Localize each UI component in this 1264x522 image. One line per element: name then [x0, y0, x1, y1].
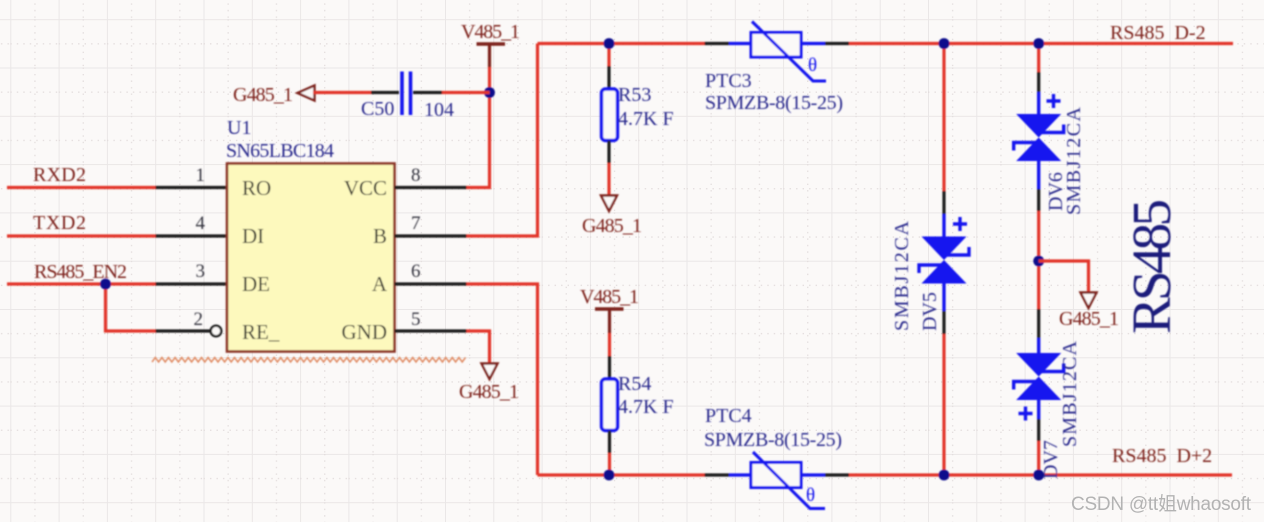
svg-text:CSDN @tt姐whaosoft: CSDN @tt姐whaosoft — [1071, 493, 1252, 515]
DV5 plus mark — [953, 217, 967, 231]
diode DV5 anode lead blue — [942, 214, 945, 237]
svg-text:B: B — [373, 224, 387, 248]
wire pin3 stub — [156, 282, 228, 285]
svg-text:4.7K F: 4.7K F — [618, 396, 674, 418]
power symbol V485_1 bar at R54 — [595, 307, 624, 311]
junction DV7 bottom rail — [1033, 470, 1044, 481]
svg-text:RS485_EN2: RS485_EN2 — [34, 261, 127, 283]
svg-text:VCC: VCC — [344, 176, 387, 200]
svg-text:6: 6 — [411, 261, 421, 282]
svg-text:R53: R53 — [618, 84, 651, 106]
wire DV5 bottom — [942, 334, 945, 475]
PTC3 right lead black — [825, 42, 849, 45]
svg-text:G485_1: G485_1 — [459, 381, 519, 403]
wire bottom rail left segment — [538, 473, 705, 476]
thermistor PTC3 — [729, 22, 826, 82]
capacitor C50 plates — [402, 72, 411, 116]
wire pin5 GND drop — [467, 331, 490, 364]
wire DV5 top — [942, 44, 945, 192]
svg-text:SPMZB-8(15-25): SPMZB-8(15-25) — [705, 92, 843, 114]
wire top rail left segment — [538, 42, 705, 45]
wire R53 top — [607, 44, 610, 67]
PTC4 left lead black — [705, 473, 730, 476]
svg-text:PTC3: PTC3 — [705, 70, 752, 92]
diode DV6 bottom lead black — [1037, 189, 1040, 211]
wire C50 right — [442, 91, 490, 94]
wire pin4 stub — [156, 234, 228, 237]
svg-text:PTC4: PTC4 — [705, 405, 752, 427]
diode DV6 bottom lead blue — [1037, 161, 1040, 190]
junction C50 tap — [484, 87, 495, 98]
wire pin2 stub — [156, 329, 211, 332]
resistor R54 body — [602, 379, 618, 431]
svg-text:V485_1: V485_1 — [580, 286, 639, 308]
wire pin1 stub — [156, 186, 228, 189]
svg-text:GND: GND — [342, 320, 388, 344]
svg-text:1: 1 — [196, 165, 206, 186]
svg-text:U1: U1 — [227, 117, 251, 139]
svg-text:θ: θ — [808, 55, 817, 76]
wire DV6 to DV7 — [1037, 211, 1040, 309]
resistor R53 body — [602, 89, 618, 141]
svg-text:8: 8 — [411, 165, 421, 186]
wire C50 left — [313, 91, 371, 94]
wire pin5 stub — [395, 329, 467, 332]
pin2 inversion bubble — [211, 326, 222, 337]
DV6 plus mark — [1047, 94, 1061, 108]
svg-text:SN65LBC184: SN65LBC184 — [226, 140, 334, 162]
diode DV7 TVS body — [1016, 353, 1061, 377]
svg-text:5: 5 — [411, 309, 421, 330]
wire pin7 stub — [395, 234, 467, 237]
svg-text:C50: C50 — [361, 98, 394, 120]
wire pin7 B to top rail — [467, 44, 538, 237]
power symbol V485_1 stem at R54 — [608, 309, 611, 333]
wire DV7 bottom — [1037, 441, 1040, 475]
svg-text:104: 104 — [424, 99, 454, 121]
capacitor C50 left lead — [371, 91, 399, 94]
svg-text:RO: RO — [242, 176, 271, 200]
ground arrow G485_1 at pin5 — [482, 364, 498, 380]
svg-text:DV5: DV5 — [919, 292, 941, 331]
svg-text:RS485 D+2: RS485 D+2 — [1112, 445, 1212, 467]
junction R53 top rail — [604, 38, 615, 49]
capacitor C50 right lead — [413, 91, 442, 94]
svg-text:4: 4 — [196, 213, 206, 234]
junction EN2 branch — [100, 279, 111, 290]
wire top rail right segment — [849, 42, 1233, 45]
svg-text:G485_1: G485_1 — [582, 215, 642, 237]
resistor R54 top lead — [608, 356, 611, 379]
DV7 plus mark — [1019, 407, 1033, 421]
wire RXD2 net — [7, 186, 156, 189]
svg-text:SMBJ12CA: SMBJ12CA — [1059, 340, 1081, 447]
diode DV7 bottom lead black — [1037, 419, 1040, 441]
diode DV6 top lead black — [1037, 72, 1040, 92]
wire bottom rail right segment — [849, 473, 1232, 476]
svg-text:G485_1: G485_1 — [1059, 308, 1119, 330]
junction R54 bottom rail — [604, 470, 615, 481]
resistor R53 bottom lead — [607, 141, 610, 164]
svg-text:RS485 D-2: RS485 D-2 — [1110, 22, 1206, 44]
resistor R54 bottom lead — [608, 431, 611, 454]
diode DV5 TVS body — [922, 237, 967, 261]
PTC3 left lead black — [705, 42, 730, 45]
diode DV5 bottom lead black — [942, 311, 945, 334]
svg-text:RXD2: RXD2 — [33, 164, 86, 186]
power symbol V485_1 bar — [477, 42, 506, 46]
wire R53 bottom — [607, 163, 610, 196]
junction DV6 DV7 G485 — [1033, 256, 1044, 267]
svg-text:3: 3 — [196, 261, 206, 282]
svg-text:7: 7 — [411, 213, 421, 234]
wire G485 branch — [1039, 261, 1089, 293]
diode DV7 bottom lead blue — [1037, 400, 1040, 420]
PTC4 right lead black — [825, 473, 849, 476]
wire pin6 A to bottom rail — [467, 284, 538, 475]
wire R54 bottom — [608, 453, 611, 475]
svg-text:4.7K F: 4.7K F — [618, 108, 674, 130]
svg-text:RE_: RE_ — [242, 320, 280, 344]
junction DV6 top rail — [1033, 38, 1044, 49]
diode DV5 bottom lead blue — [942, 283, 945, 311]
diode DV7 top lead black — [1037, 309, 1040, 338]
svg-text:V485_1: V485_1 — [461, 21, 520, 43]
op-amp U1 SN65LBC184 body — [227, 164, 395, 352]
wire pin6 stub — [395, 282, 467, 285]
resistor R53 top lead — [607, 66, 610, 89]
svg-text:DE: DE — [242, 272, 270, 296]
svg-text:RS485: RS485 — [1121, 199, 1182, 334]
diode DV7 top lead blue — [1037, 338, 1040, 354]
wire RS485_EN2 net — [7, 282, 156, 285]
diode DV6 TVS body — [1016, 114, 1061, 138]
svg-text:DI: DI — [242, 224, 264, 248]
svg-text:SPMZB-8(15-25): SPMZB-8(15-25) — [704, 429, 842, 451]
ground arrow G485_1 at R53 — [601, 196, 617, 212]
wire pin8 stub — [395, 186, 467, 189]
power symbol V485_1 stem — [488, 45, 491, 67]
wire R54 top — [608, 333, 611, 356]
wire EN2 branch to RE_ — [106, 284, 156, 331]
wire pin8 to V485_1 — [467, 67, 490, 188]
ground arrow G485_1 at DV junction — [1081, 293, 1097, 309]
wire DV6 top — [1037, 44, 1040, 73]
diode DV5 top lead — [942, 191, 945, 214]
error squiggle under U1 — [152, 358, 466, 363]
svg-text:TXD2: TXD2 — [33, 212, 86, 234]
svg-text:R54: R54 — [618, 373, 651, 395]
svg-text:2: 2 — [194, 309, 204, 330]
svg-text:A: A — [372, 272, 388, 296]
junction DV5 top rail — [939, 38, 950, 49]
thermistor PTC4 — [729, 452, 825, 509]
diode DV6 top lead blue — [1037, 92, 1040, 115]
svg-text:G485_1: G485_1 — [233, 84, 293, 106]
svg-text:θ: θ — [806, 485, 815, 506]
junction DV5 bottom rail — [939, 470, 950, 481]
wire TXD2 net — [7, 234, 156, 237]
ground arrow G485_1 at C50 — [298, 86, 315, 101]
